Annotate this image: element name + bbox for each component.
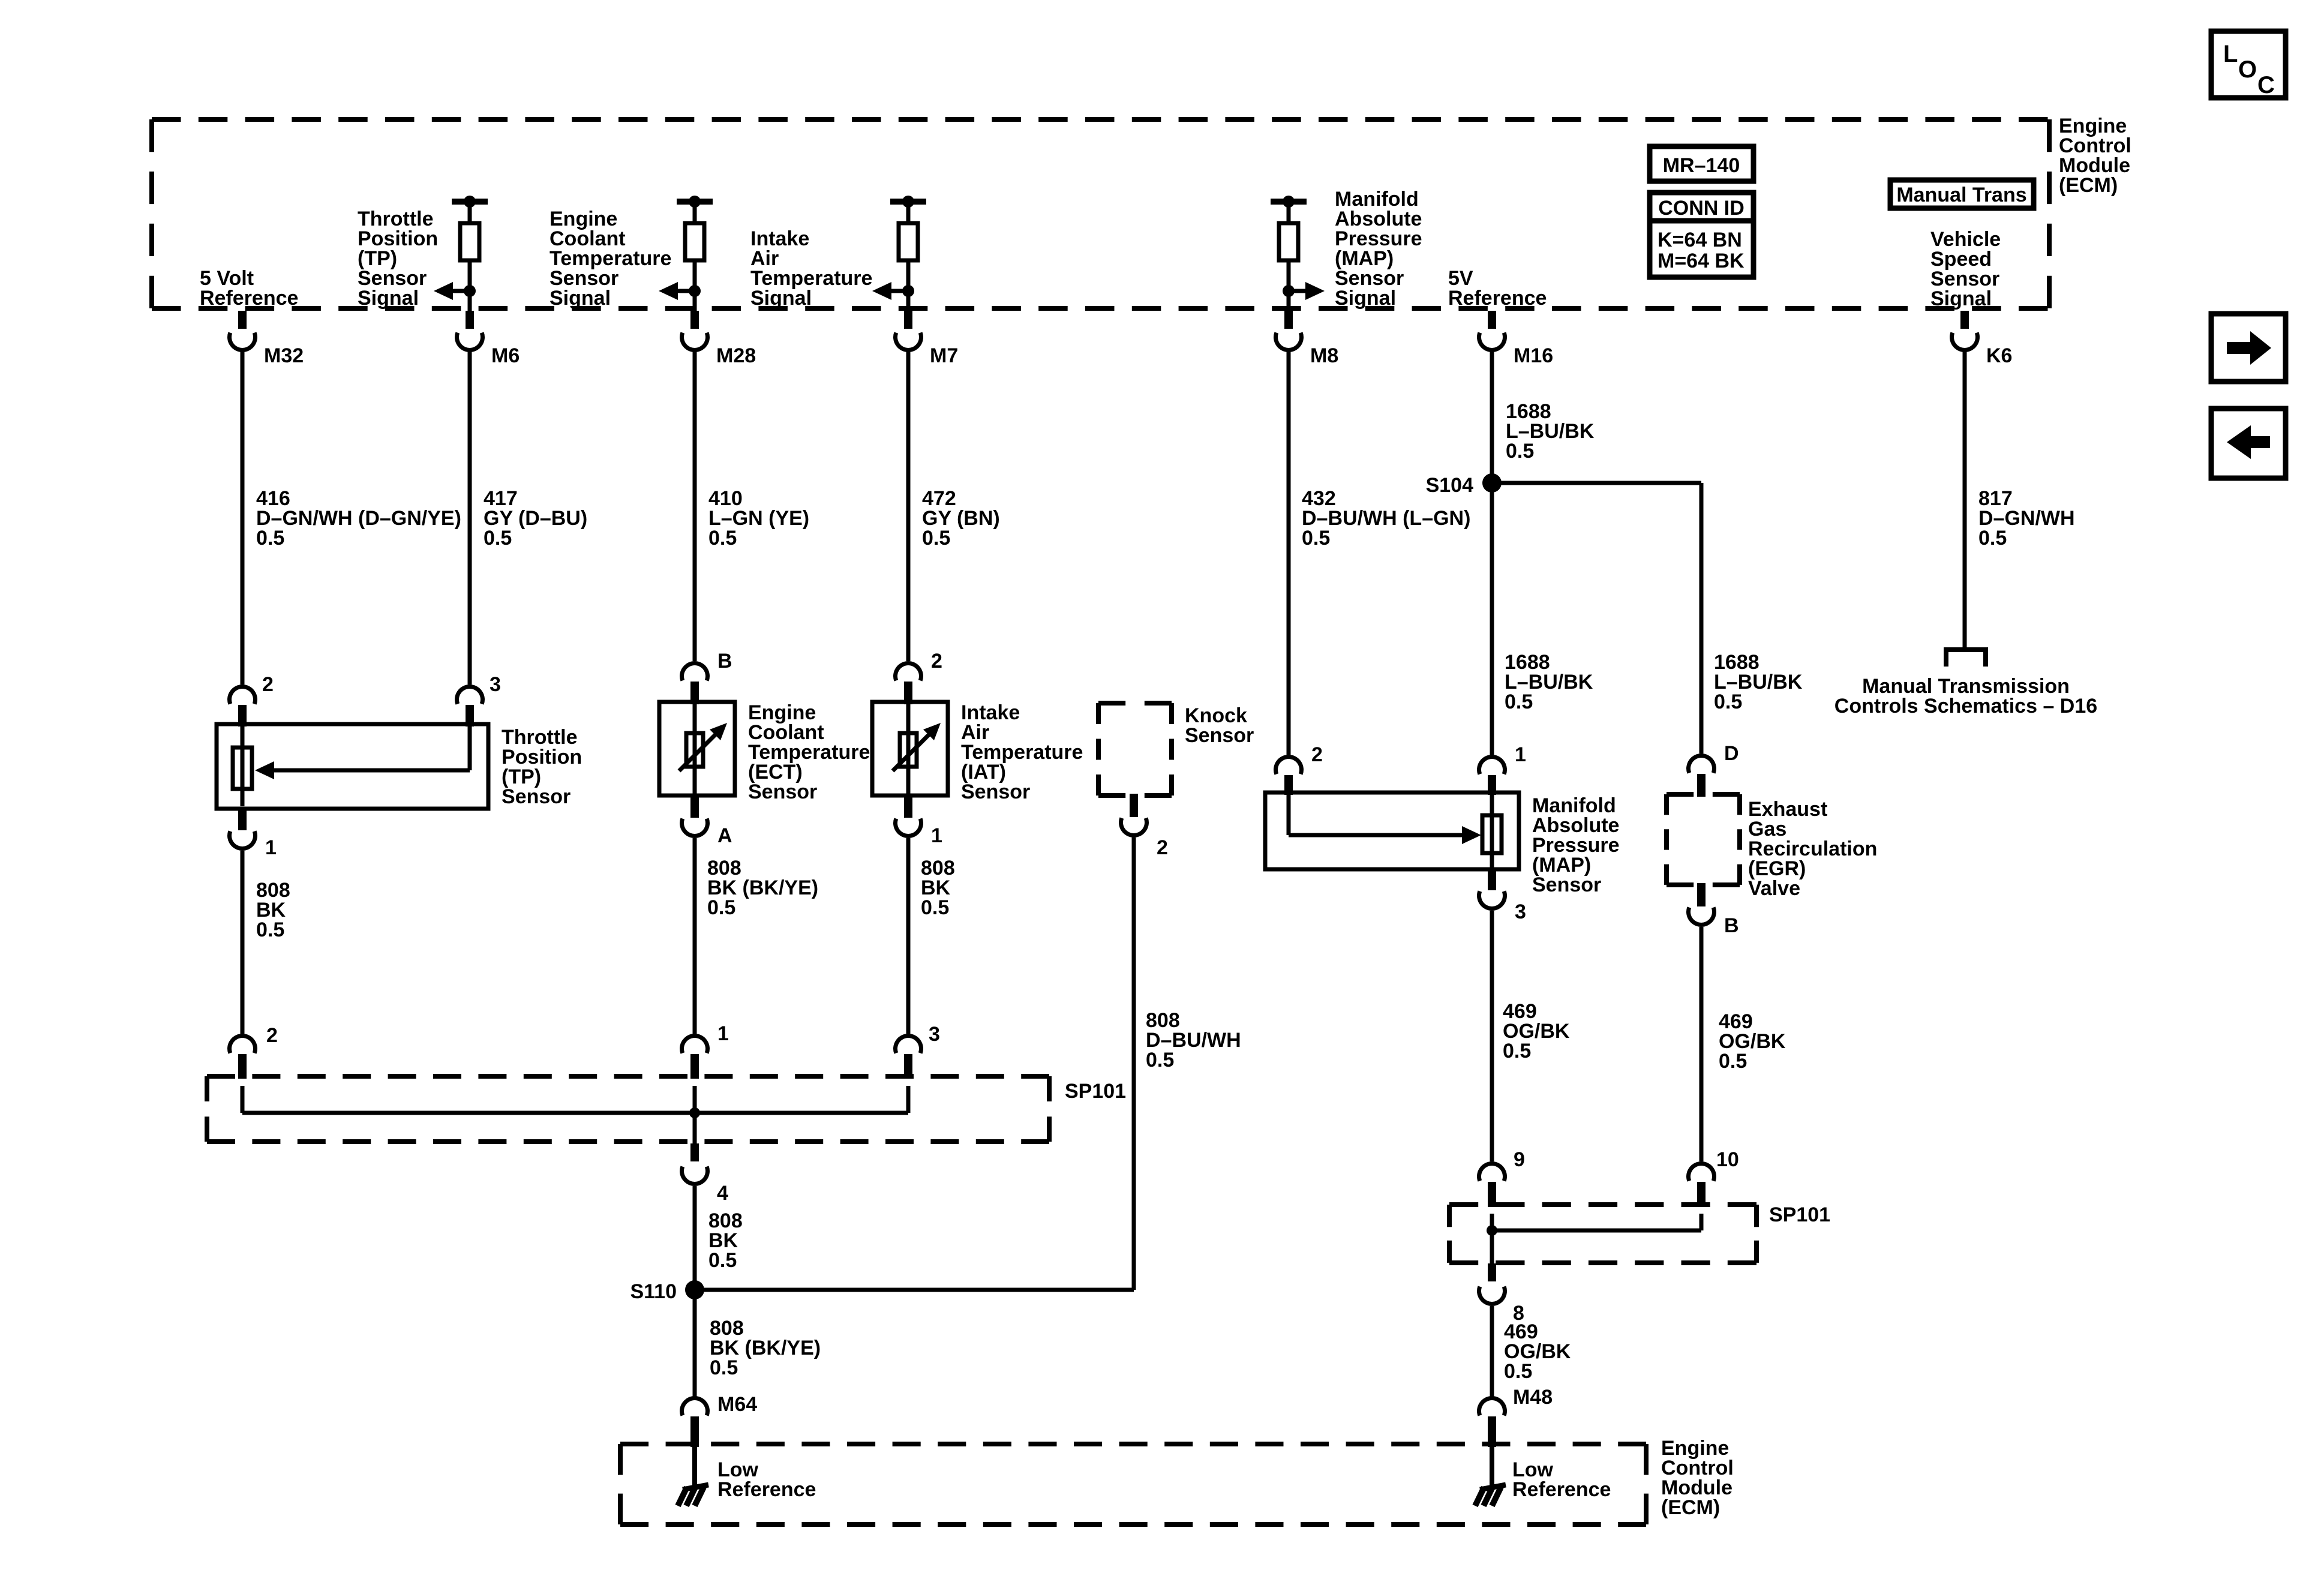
wire M16 to splice S104 (1490, 351, 1494, 483)
splice S104 (1482, 473, 1502, 493)
svg-text:SP101: SP101 (1065, 1080, 1126, 1103)
page navigation left arrow symbol (2211, 409, 2286, 478)
svg-text:0.5: 0.5 (256, 527, 284, 550)
component pin connector 3 (896, 1036, 921, 1053)
svg-text:2: 2 (266, 1024, 278, 1047)
wire M7 to IAT sensor pin 2 (906, 351, 911, 661)
ECM pin connector M8 (1284, 311, 1293, 329)
svg-text:0.5: 0.5 (484, 527, 512, 550)
svg-text:M=64 BK: M=64 BK (1658, 250, 1744, 272)
ECM pin connector M6 (466, 311, 474, 329)
wire S110 to ECM pin M64 (693, 1290, 697, 1397)
signal junction and arrow at ECM pin M6 (464, 285, 476, 297)
svg-text:M8: M8 (1310, 344, 1338, 367)
potentiometer of MAP sensor (1490, 795, 1494, 867)
ECM pin connector M16 (1488, 311, 1496, 329)
wire EGR valve pin B to SP101 pin 10 (1700, 927, 1704, 1161)
signal junction and arrow at ECM pin M8 (1283, 285, 1295, 297)
svg-text:3: 3 (929, 1023, 940, 1046)
ECM pin connector M32 (238, 311, 247, 329)
svg-text:M28: M28 (716, 344, 756, 367)
wire TP sensor pin 1 to SP101 (241, 851, 245, 1034)
svg-text:Sensor: Sensor (1532, 873, 1601, 896)
svg-text:MR–140: MR–140 (1663, 154, 1740, 177)
svg-text:M32: M32 (264, 344, 304, 367)
thermistor symbol of IAT sensor (906, 704, 911, 795)
svg-text:0.5: 0.5 (1504, 1360, 1532, 1383)
svg-text:M64: M64 (717, 1393, 757, 1416)
svg-text:L: L (2223, 41, 2238, 67)
wire M6 to TP sensor pin 3 (468, 351, 472, 685)
wire ECT sensor pin A to SP101 (693, 838, 697, 1034)
svg-text:Sensor: Sensor (961, 781, 1030, 803)
ECM module top dashed box (152, 117, 2049, 122)
svg-text:0.5: 0.5 (1714, 691, 1742, 713)
wire S110 to knock sensor branch (695, 1288, 1134, 1292)
label CONN ID box (1650, 193, 1753, 277)
wiper arrow of MAP sensor (1287, 795, 1291, 835)
Exhaust Gas Recirculation (EGR) Valve dashed box (1667, 792, 1740, 797)
svg-text:M16: M16 (1514, 344, 1553, 367)
wire S104 to MAP sensor pin 1 (1490, 483, 1494, 755)
svg-text:B: B (1724, 914, 1739, 937)
component pin connector 1 (238, 807, 247, 830)
svg-text:A: A (717, 824, 732, 847)
wire knock sensor pin 2 to splice S110 (1132, 837, 1136, 1290)
wire MAP sensor pin 3 to SP101 pin 9 (1490, 911, 1494, 1161)
component pin connector 9 (1479, 1164, 1505, 1181)
svg-text:3: 3 (1515, 900, 1526, 923)
svg-text:S104: S104 (1426, 474, 1473, 497)
svg-text:0.5: 0.5 (708, 1249, 737, 1272)
svg-text:1: 1 (265, 836, 277, 859)
svg-text:Manual Trans: Manual Trans (1896, 184, 2026, 206)
ground symbol right (1480, 1485, 1506, 1490)
svg-text:0.5: 0.5 (710, 1356, 738, 1379)
svg-text:0.5: 0.5 (1302, 527, 1330, 550)
label Manual Trans box (1890, 180, 2034, 208)
component pin connector 10 (1689, 1164, 1715, 1181)
svg-text:0.5: 0.5 (921, 896, 949, 919)
svg-text:Valve: Valve (1748, 877, 1800, 900)
svg-text:Signal: Signal (358, 287, 419, 310)
Knock Sensor dashed box (1098, 701, 1172, 706)
wire K6 to off-page reference (1963, 351, 1967, 650)
component pin connector 2 (1276, 757, 1302, 775)
svg-text:(ECM): (ECM) (2059, 174, 2118, 197)
svg-text:D–GN/WH (D–GN/YE): D–GN/WH (D–GN/YE) (256, 507, 461, 530)
component pin connector 2 (896, 664, 921, 681)
splice bus wire inside SP101 (241, 1086, 245, 1113)
thermistor symbol of ECT sensor (693, 704, 697, 795)
svg-text:Signal: Signal (1930, 287, 1992, 310)
svg-text:0.5: 0.5 (707, 896, 735, 919)
svg-text:M48: M48 (1513, 1386, 1553, 1409)
label MR-140 box (1650, 146, 1753, 181)
ECM pin connector M7 (904, 311, 912, 329)
component pin connector A (690, 794, 699, 818)
pull-up resistor at ECM pin M6 (452, 199, 488, 205)
svg-text:K6: K6 (1986, 344, 2012, 367)
component pin connector 1 (682, 1036, 708, 1053)
svg-text:Reference: Reference (1512, 1478, 1611, 1501)
pull-up resistor at ECM pin M7 (890, 199, 926, 205)
wire SP101 pin 4 to splice S110 (693, 1186, 697, 1290)
svg-text:1: 1 (1515, 743, 1526, 766)
splice bus wire inside right SP101 (1490, 1214, 1494, 1230)
splice junction dot in right SP101 (1487, 1225, 1497, 1236)
ground wire at M64 low reference (692, 1446, 697, 1487)
svg-text:S110: S110 (630, 1280, 677, 1303)
pull-up resistor at ECM pin M8 (1271, 199, 1307, 205)
svg-text:0.5: 0.5 (1506, 440, 1534, 463)
svg-text:1: 1 (931, 824, 942, 847)
Throttle Position (TP) Sensor box (217, 724, 488, 809)
svg-text:B: B (717, 650, 732, 673)
ECM pin connector M28 (690, 311, 699, 329)
splice junction dot in SP101 (689, 1107, 700, 1118)
pull-up resistor at ECM pin M28 (677, 199, 713, 205)
Engine Coolant Temperature (ECT) Sensor box (659, 702, 735, 795)
svg-text:M6: M6 (491, 344, 520, 367)
svg-text:2: 2 (1157, 836, 1168, 859)
off-page reference bracket (1946, 650, 1986, 667)
splice S110 (685, 1280, 704, 1299)
svg-text:10: 10 (1716, 1148, 1739, 1171)
svg-text:0.5: 0.5 (256, 918, 284, 941)
svg-text:1: 1 (717, 1022, 729, 1045)
svg-text:Signal: Signal (550, 287, 611, 310)
svg-text:Reference: Reference (200, 287, 298, 310)
svg-text:2: 2 (262, 673, 274, 696)
svg-text:Signal: Signal (1335, 287, 1396, 310)
svg-text:0.5: 0.5 (1503, 1040, 1531, 1062)
signal junction and arrow at ECM pin M28 (689, 285, 701, 297)
splice pack SP101 right dashed box (1449, 1202, 1756, 1207)
svg-text:0.5: 0.5 (1719, 1050, 1747, 1073)
wire IAT sensor pin 1 to SP101 (906, 838, 911, 1034)
svg-text:CONN ID: CONN ID (1658, 197, 1744, 220)
svg-text:0.5: 0.5 (1146, 1049, 1174, 1071)
svg-text:Reference: Reference (717, 1478, 816, 1501)
component pin connector 3 (457, 687, 483, 704)
svg-text:2: 2 (931, 650, 942, 673)
svg-text:Reference: Reference (1448, 287, 1547, 310)
component pin connector 2 (1130, 794, 1138, 817)
SP101 output pin 8 connector (1488, 1263, 1496, 1281)
svg-text:4: 4 (717, 1182, 728, 1205)
svg-text:Sensor: Sensor (502, 785, 571, 808)
ECM pin connector K6 (1960, 311, 1969, 329)
svg-text:9: 9 (1514, 1148, 1525, 1171)
component pin connector B (682, 664, 708, 681)
page navigation right arrow symbol (2211, 314, 2286, 382)
SP101 output pin 4 connector (690, 1143, 699, 1161)
ground wire at M48 low reference (1490, 1446, 1494, 1487)
svg-text:(ECM): (ECM) (1661, 1496, 1720, 1519)
wire SP101 pin 8 to ECM pin M48 (1490, 1306, 1494, 1397)
svg-text:0.5: 0.5 (708, 527, 737, 550)
svg-text:0.5: 0.5 (922, 527, 950, 550)
svg-text:D: D (1724, 742, 1739, 765)
wire S104 to EGR valve branch (1492, 481, 1701, 485)
component pin connector 2 (229, 1036, 255, 1053)
svg-text:Sensor: Sensor (748, 781, 817, 803)
svg-text:O: O (2238, 56, 2257, 83)
component pin connector B (1697, 883, 1706, 906)
signal junction and arrow at ECM pin M7 (902, 285, 914, 297)
svg-text:M7: M7 (930, 344, 958, 367)
wire M32 to TP sensor pin 2 (241, 351, 245, 685)
svg-text:Controls Schematics – D16: Controls Schematics – D16 (1834, 695, 2097, 718)
Intake Air Temperature (IAT) Sensor box (872, 702, 948, 795)
svg-text:Signal: Signal (750, 287, 812, 310)
Manifold Absolute Pressure (MAP) Sensor box (1265, 792, 1519, 869)
LOC page reference symbol (2211, 31, 2286, 98)
svg-text:Sensor: Sensor (1185, 724, 1254, 747)
component pin connector 3 (1488, 867, 1496, 890)
svg-text:2: 2 (1311, 743, 1323, 766)
svg-text:0.5: 0.5 (1978, 527, 2007, 550)
component pin connector 1 (1479, 757, 1505, 775)
component pin connector 1 (904, 794, 912, 818)
component pin connector 2 (229, 687, 255, 704)
svg-text:K=64 BN: K=64 BN (1658, 229, 1742, 251)
wire M8 to MAP sensor pin 2 (1287, 351, 1291, 755)
ground symbol left (683, 1485, 708, 1490)
wiper arrow of TP sensor (468, 727, 472, 770)
potentiometer of TP sensor (241, 727, 245, 806)
svg-text:SP101: SP101 (1769, 1203, 1830, 1226)
svg-text:3: 3 (490, 673, 501, 696)
splice pack SP101 left dashed box (207, 1074, 1049, 1079)
wire M28 to ECT sensor pin B (693, 351, 697, 661)
component pin connector D (1689, 756, 1715, 773)
svg-text:C: C (2257, 72, 2275, 98)
ECM module bottom dashed box (620, 1442, 1646, 1446)
svg-text:0.5: 0.5 (1505, 691, 1533, 713)
